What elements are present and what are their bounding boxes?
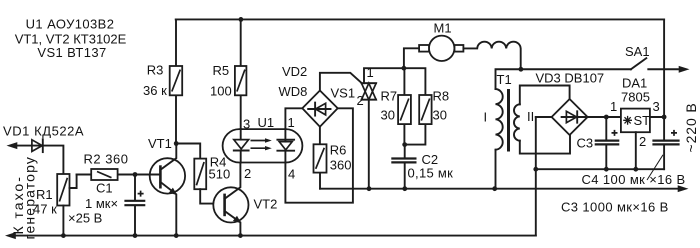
svg-text:C1: C1 xyxy=(96,181,113,196)
svg-text:ST: ST xyxy=(634,113,651,128)
diode bridge VD3 xyxy=(552,99,588,135)
transformer T1 core xyxy=(507,89,510,152)
svg-text:2: 2 xyxy=(357,93,364,108)
node R3/VT1 collector xyxy=(174,141,179,146)
svg-text:VD2: VD2 xyxy=(282,64,307,79)
svg-text:3: 3 xyxy=(653,99,660,114)
svg-text:DA1: DA1 xyxy=(622,76,647,91)
wire VD3 left corner to ground riser xyxy=(536,116,552,118)
wire bottom rail xyxy=(5,232,16,239)
wire M1 left lead xyxy=(404,48,419,68)
svg-text:100: 100 xyxy=(210,84,232,99)
resistor R3 xyxy=(175,19,177,143)
wire to R4 xyxy=(176,144,200,159)
voltage regulator DA1 xyxy=(621,109,650,133)
U1 photo-thyristor xyxy=(284,129,286,142)
svg-text:30: 30 xyxy=(381,108,395,123)
svg-text:2: 2 xyxy=(639,134,646,149)
svg-text:1 мк×: 1 мк× xyxy=(85,196,118,211)
node C1 bottom xyxy=(133,233,138,238)
svg-text:R2 360: R2 360 xyxy=(84,152,129,167)
svg-text:3: 3 xyxy=(243,117,250,132)
wire T1 secondary bottom to VD3 xyxy=(520,135,570,154)
wire right +5V rail xyxy=(663,19,665,140)
svg-text:C3 1000 мк×16 В: C3 1000 мк×16 В xyxy=(561,200,669,215)
title text block xyxy=(15,17,127,61)
svg-text:R6: R6 xyxy=(330,143,347,158)
capacitor C1 xyxy=(134,175,136,236)
wire SA1 feed / node inductor xyxy=(496,69,631,89)
capacitor C4 xyxy=(663,145,665,169)
svg-text:1: 1 xyxy=(288,115,295,130)
svg-text:36 к: 36 к xyxy=(143,83,167,98)
svg-text:0,15 мк: 0,15 мк xyxy=(408,166,454,181)
transistor VT1 xyxy=(150,158,185,193)
svg-text:VT1: VT1 xyxy=(148,136,172,151)
svg-text:M1: M1 xyxy=(434,21,452,36)
wiper of R1 to R2 xyxy=(70,175,77,189)
node R5 top xyxy=(239,17,244,22)
wire ground riser xyxy=(535,117,537,236)
switch SA1 xyxy=(631,58,646,69)
wire tacho top xyxy=(16,146,63,174)
wire DA1 pin 3 xyxy=(650,116,664,118)
wire ground line xyxy=(536,168,664,170)
node triac bottom xyxy=(367,186,372,191)
node C3 bottom xyxy=(604,167,609,172)
svg-text:7805: 7805 xyxy=(621,90,650,105)
svg-text:R7: R7 xyxy=(381,89,398,104)
svg-text:I: I xyxy=(484,110,488,125)
node C3 top xyxy=(604,115,609,120)
svg-text:2: 2 xyxy=(244,166,251,181)
svg-text:R1: R1 xyxy=(36,187,53,202)
svg-text:SA1: SA1 xyxy=(625,44,650,59)
wire U1 pin4 to bridge VD2 right corner xyxy=(285,108,353,202)
svg-text:1: 1 xyxy=(367,65,374,80)
svg-text:U1: U1 xyxy=(258,115,275,130)
svg-text:~220 В: ~220 В xyxy=(683,102,699,152)
svg-text:VD1 КД522А: VD1 КД522А xyxy=(3,124,84,139)
resistor R5 xyxy=(240,19,242,129)
svg-text:WD8: WD8 xyxy=(279,84,308,99)
svg-text:1: 1 xyxy=(610,99,617,114)
svg-text:×25 В: ×25 В xyxy=(68,211,102,226)
transformer T1 secondary xyxy=(514,104,520,140)
node R2/C1/VT1 base xyxy=(133,172,138,177)
svg-text:U1 АОУ103В2: U1 АОУ103В2 xyxy=(26,17,115,32)
diode bridge VD2 xyxy=(302,91,337,127)
svg-text:VT2: VT2 xyxy=(254,197,278,212)
capacitor C3 xyxy=(605,117,607,169)
svg-text:VS1 ВТ137: VS1 ВТ137 xyxy=(37,45,106,60)
node R7/R8/C2 xyxy=(402,142,407,147)
resistor R6 xyxy=(319,127,321,189)
node T1 primary bottom xyxy=(492,186,497,191)
wire VD3 to DA1 pin 1 xyxy=(588,116,621,118)
svg-text:510: 510 xyxy=(209,166,231,181)
triac VS1 xyxy=(362,83,377,100)
svg-text:VD3 DB107: VD3 DB107 xyxy=(536,71,605,86)
inductor after M1 xyxy=(463,42,520,70)
diode VD1 xyxy=(32,140,42,152)
node VT1 emitter xyxy=(174,233,179,238)
node riser/ground line xyxy=(533,167,538,172)
transistor VT2 xyxy=(213,187,248,222)
svg-text:R5: R5 xyxy=(213,63,230,78)
optocoupler U1 body xyxy=(223,129,303,162)
svg-text:VS1: VS1 xyxy=(331,86,356,101)
svg-text:C4 100 мк ×16 В: C4 100 мк ×16 В xyxy=(582,172,686,187)
wire +5V top rail xyxy=(176,18,664,20)
node VT2 emitter xyxy=(238,233,243,238)
resistor R4 xyxy=(194,159,206,190)
capacitor C2 xyxy=(404,145,406,189)
U1 pin 3 lead xyxy=(240,129,242,140)
node M1/R7 top xyxy=(402,66,407,71)
svg-text:4: 4 xyxy=(288,167,295,182)
wire DA1 pin 2 to ground xyxy=(635,132,637,169)
wire U1 pin1 to bridge VD2 xyxy=(285,108,302,129)
U1 light arrows xyxy=(251,141,268,149)
node DA1 pin2 xyxy=(633,167,638,172)
svg-text:R8: R8 xyxy=(433,89,450,104)
svg-text:II: II xyxy=(527,109,534,124)
svg-text:47 к: 47 к xyxy=(33,202,57,217)
resistor R1 (potentiometer) xyxy=(57,174,69,206)
wire T1 secondary top to VD3 xyxy=(520,86,570,105)
arrow to tachogenerator (top) xyxy=(7,142,18,149)
node pin3/rail/C4 xyxy=(662,115,667,120)
svg-text:R3: R3 xyxy=(147,63,164,78)
svg-text:C3: C3 xyxy=(577,136,594,151)
svg-text:T1: T1 xyxy=(497,72,512,87)
node C2 bottom xyxy=(402,186,407,191)
resistor R2 xyxy=(77,174,135,176)
svg-text:30: 30 xyxy=(433,108,447,123)
resistor R8 xyxy=(404,124,425,145)
svg-text:360: 360 xyxy=(330,158,352,173)
U1 LED xyxy=(234,140,249,149)
leader line to C4 xyxy=(647,155,663,180)
wire mains lower (to arrow) xyxy=(320,188,678,190)
transformer T1 primary xyxy=(496,89,503,150)
resistor R7 xyxy=(403,68,405,144)
wire VD2 top corner to VS1 gate xyxy=(320,73,362,91)
node R1 bottom xyxy=(61,233,66,238)
